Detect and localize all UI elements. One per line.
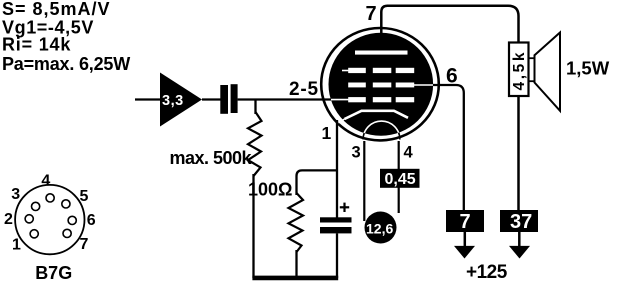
- wire heater pin3: [363, 141, 365, 221]
- socket pin hole 1: [30, 230, 38, 238]
- wire capacitor to ground rail: [336, 233, 338, 278]
- socket pin hole 4: [46, 194, 54, 202]
- transformer primary box 4,5k: [509, 43, 529, 97]
- wire 7 box to arrow: [464, 232, 467, 248]
- svg-text:0,45: 0,45: [385, 171, 416, 188]
- svg-text:4,5k: 4,5k: [511, 50, 528, 91]
- svg-text:1: 1: [322, 123, 332, 143]
- anode bar: [355, 51, 408, 55]
- node grid junction: [254, 100, 256, 115]
- svg-text:1,5W: 1,5W: [566, 58, 610, 79]
- socket pin hole 3: [31, 202, 39, 210]
- wire transformer to cathode current box: [517, 96, 520, 210]
- wire capacitor to grid g1: [238, 98, 331, 100]
- current box 37: [500, 210, 538, 233]
- svg-text:4: 4: [404, 143, 414, 161]
- svg-text:3,3: 3,3: [162, 93, 184, 109]
- svg-text:+125: +125: [466, 262, 508, 283]
- socket pin hole 2: [25, 215, 33, 223]
- svg-text:100Ω: 100Ω: [248, 180, 292, 200]
- cathode chevron: [339, 111, 409, 123]
- ground bus rail: [252, 276, 338, 281]
- current box 7: [446, 210, 484, 233]
- heater voltage disc 12,6: [365, 212, 397, 244]
- resistor max.500k grid leak: [248, 112, 262, 176]
- wire screen pin6 to box: [433, 85, 464, 210]
- grid g3 row: [342, 68, 414, 73]
- speaker horn: [535, 33, 561, 111]
- svg-text:6: 6: [87, 212, 96, 229]
- socket pin hole 5: [62, 200, 70, 208]
- input attenuator triangle 3,3: [160, 73, 202, 127]
- wire input left: [135, 98, 161, 100]
- svg-text:Pa=max. 6,25W: Pa=max. 6,25W: [2, 54, 130, 74]
- wire triangle to capacitor: [202, 98, 221, 100]
- tube inner electrode disc: [329, 33, 434, 136]
- grid g1 row control: [331, 97, 414, 102]
- svg-text:B7G: B7G: [35, 263, 72, 283]
- heater current box 0,45: [380, 169, 420, 188]
- wire anode pin7 to transformer: [381, 6, 518, 43]
- svg-text:4: 4: [41, 172, 50, 189]
- arrow anode supply: [509, 246, 530, 259]
- svg-text:7: 7: [80, 236, 89, 253]
- socket pin hole 7: [63, 229, 71, 237]
- svg-text:1: 1: [12, 237, 21, 254]
- svg-text:S= 8,5mA/V: S= 8,5mA/V: [2, 0, 111, 19]
- svg-text:7: 7: [460, 211, 471, 233]
- arrow screen supply: [454, 246, 475, 259]
- coupling capacitor C1: [220, 84, 237, 114]
- socket B7G outline: [15, 185, 84, 254]
- wire cathode pin1 vertical: [336, 120, 338, 218]
- resistor 100 ohm cathode: [289, 193, 304, 252]
- socket pin hole 6: [68, 216, 76, 224]
- svg-text:3: 3: [11, 186, 20, 203]
- wire 100 ohm to ground rail: [295, 250, 297, 278]
- svg-text:37: 37: [510, 211, 532, 233]
- svg-text:3: 3: [352, 143, 361, 161]
- svg-text:2: 2: [4, 211, 13, 228]
- wire 37 box to arrow: [518, 232, 521, 248]
- svg-text:2-5: 2-5: [289, 79, 319, 100]
- svg-text:max. 500k: max. 500k: [170, 148, 253, 168]
- svg-text:7: 7: [366, 3, 377, 25]
- capacitor electrolytic cathode plus: [320, 203, 352, 234]
- grid g2 row screen: [348, 83, 433, 88]
- tube envelope circle: [321, 28, 439, 140]
- wire 500k to ground rail: [252, 174, 254, 278]
- wire cathode branch horizontal: [297, 170, 338, 195]
- heater dome white arc inside disc: [363, 121, 400, 139]
- heater dome black arc: [363, 121, 400, 139]
- wire heater pin4: [398, 141, 400, 213]
- svg-text:Ri= 14k: Ri= 14k: [2, 35, 71, 55]
- svg-text:12,6: 12,6: [366, 221, 393, 237]
- svg-text:5: 5: [80, 188, 89, 205]
- speaker stubs: [529, 58, 535, 81]
